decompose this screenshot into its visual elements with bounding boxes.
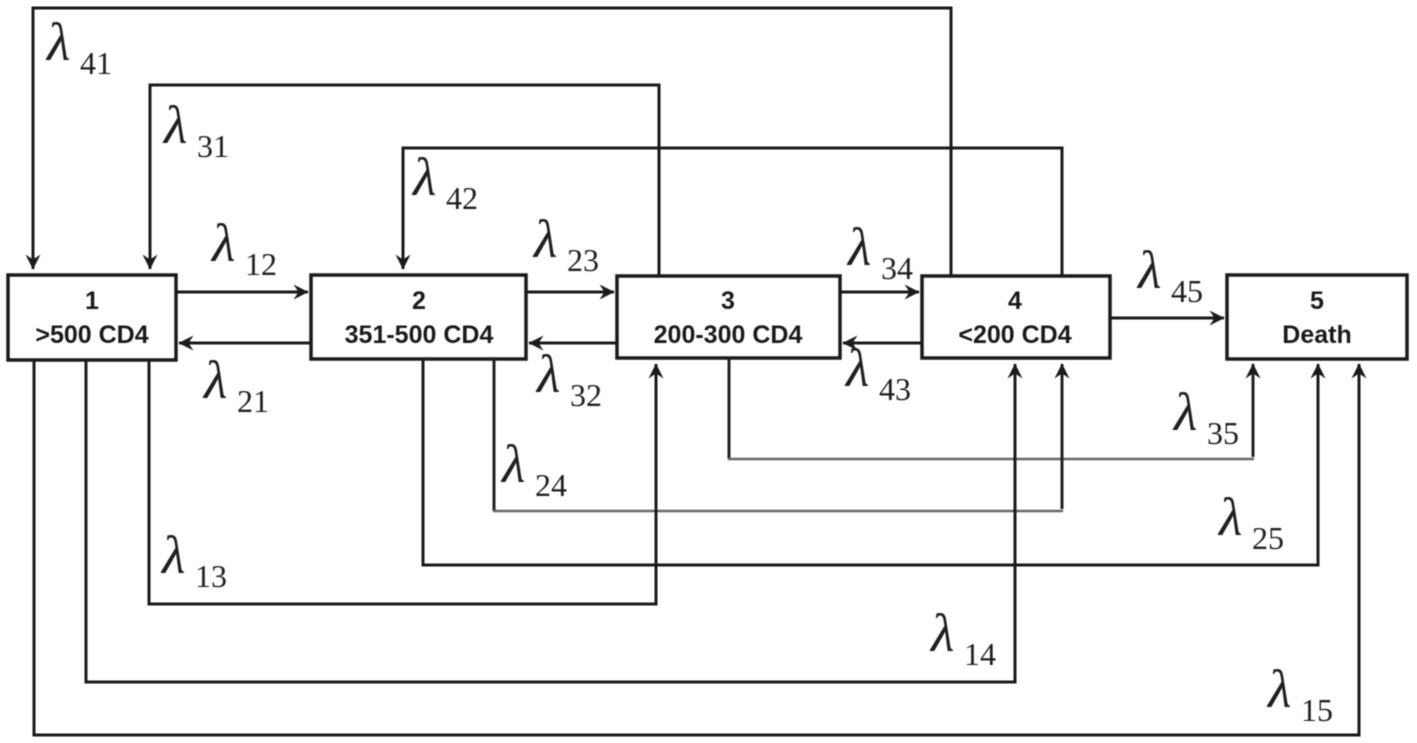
label lambda42 [411, 147, 478, 216]
arrow lambda42 (box4 top to box2 top) [403, 148, 1062, 276]
label lambda34 [846, 217, 913, 286]
arrow lambda23 (box2 to box3) [526, 291, 614, 294]
label lambda12 [210, 213, 277, 282]
label lambda31 [162, 95, 229, 164]
svg-text:45: 45 [1171, 273, 1203, 309]
svg-text:λ: λ [45, 12, 70, 72]
svg-text:200-300 CD4: 200-300 CD4 [654, 321, 803, 349]
state box 2 [311, 275, 526, 359]
svg-text:14: 14 [964, 636, 996, 672]
label lambda45 [1136, 240, 1203, 309]
arrow lambda14 (box1 bottom to box4 bottom) [86, 360, 1015, 682]
svg-text:25: 25 [1252, 520, 1284, 556]
svg-text:λ: λ [532, 209, 557, 269]
label lambda13 [160, 525, 227, 594]
svg-text:41: 41 [80, 45, 112, 81]
svg-text:23: 23 [567, 242, 599, 278]
arrow lambda21 (box2 to box1) [179, 342, 311, 345]
arrow lambda35 (box3 bottom to box5 bottom) [728, 358, 1254, 459]
label lambda25 [1217, 487, 1284, 556]
svg-text:43: 43 [879, 371, 911, 407]
svg-text:λ: λ [500, 434, 525, 494]
arrow lambda24 (box2 bottom to box4 bottom) [493, 359, 1063, 511]
arrow lambda41 (box4 top to box1 top) [33, 8, 951, 276]
svg-text:>500 CD4: >500 CD4 [35, 321, 148, 349]
svg-text:12: 12 [245, 246, 277, 282]
label lambda24 [500, 434, 567, 503]
svg-text:λ: λ [202, 350, 227, 410]
label lambda41 [45, 12, 112, 81]
arrow lambda43 (box4 to box3) [843, 342, 922, 345]
state box 1 [8, 275, 176, 360]
svg-text:21: 21 [237, 383, 269, 419]
svg-text:λ: λ [160, 525, 185, 585]
svg-text:32: 32 [570, 377, 602, 413]
svg-text:15: 15 [1301, 692, 1333, 728]
arrow lambda25 (box2 bottom to box5 bottom) [423, 359, 1318, 565]
svg-text:λ: λ [1266, 659, 1291, 719]
svg-text:λ: λ [844, 338, 869, 398]
svg-text:λ: λ [1172, 382, 1197, 442]
label lambda32 [535, 344, 602, 413]
svg-text:24: 24 [535, 467, 567, 503]
state box 4 [922, 276, 1110, 358]
svg-text:λ: λ [535, 344, 560, 404]
label lambda21 [202, 350, 269, 419]
svg-text:<200 CD4: <200 CD4 [958, 321, 1071, 349]
svg-text:λ: λ [162, 95, 187, 155]
arrow lambda34 (box3 to box4) [840, 291, 919, 294]
label lambda15 [1266, 659, 1333, 728]
state box 5 [1227, 275, 1407, 359]
svg-text:34: 34 [881, 250, 913, 286]
arrow lambda31 (box3 top to box1 top) [150, 85, 659, 276]
arrow lambda32 (box3 to box2) [529, 342, 617, 345]
state box 3 [617, 276, 840, 358]
svg-text:Death: Death [1282, 321, 1351, 349]
svg-text:31: 31 [197, 128, 229, 164]
arrow lambda12 (box1 to box2) [176, 291, 308, 294]
arrow lambda45 (box4 to box5) [1110, 317, 1224, 320]
svg-text:35: 35 [1207, 415, 1239, 451]
label lambda35 [1172, 382, 1239, 451]
svg-text:λ: λ [1136, 240, 1161, 300]
arrow lambda13 (box1 bottom to box3 bottom) [149, 360, 656, 604]
svg-text:λ: λ [411, 147, 436, 207]
svg-text:13: 13 [195, 558, 227, 594]
svg-text:2: 2 [412, 287, 426, 315]
svg-text:λ: λ [1217, 487, 1242, 547]
svg-text:42: 42 [446, 180, 478, 216]
svg-text:λ: λ [210, 213, 235, 273]
svg-text:λ: λ [929, 603, 954, 663]
label lambda23 [532, 209, 599, 278]
svg-text:351-500 CD4: 351-500 CD4 [345, 321, 494, 349]
label lambda14 [929, 603, 996, 672]
svg-text:1: 1 [85, 287, 99, 315]
svg-text:5: 5 [1310, 287, 1324, 315]
svg-text:3: 3 [721, 287, 735, 315]
label lambda43 [844, 338, 911, 407]
svg-text:4: 4 [1008, 287, 1022, 315]
arrow lambda15 (box1 bottom to box5 bottom) [34, 360, 1359, 735]
svg-text:λ: λ [846, 217, 871, 277]
